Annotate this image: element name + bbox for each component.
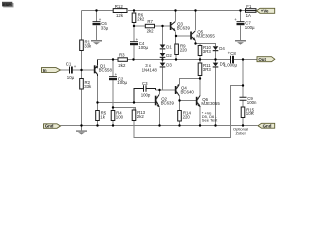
wire Q2 leads column	[159, 90, 161, 126]
resistor R10	[198, 45, 211, 56]
wire R13 top line	[113, 108, 136, 111]
capacitor C2	[109, 72, 128, 85]
svg-text:D5: D5	[220, 62, 226, 67]
svg-text:C8: C8	[230, 51, 236, 56]
ground C6	[91, 40, 102, 45]
wire D4 D5 column	[215, 51, 217, 126]
capacitor C6	[93, 17, 109, 31]
svg-text:10R: 10R	[246, 111, 254, 116]
svg-text:1A: 1A	[246, 13, 251, 18]
svg-text:100n: 100n	[247, 100, 257, 105]
svg-text:Gnd: Gnd	[45, 124, 54, 129]
wire Q5 emitter D4 line	[196, 41, 216, 47]
svg-text:1,000µ: 1,000µ	[224, 63, 238, 68]
svg-text:3R3: 3R3	[203, 49, 212, 54]
svg-text:MJE3055: MJE3055	[196, 34, 215, 39]
svg-text:R3: R3	[119, 53, 125, 58]
transistor Q1 BC558	[94, 60, 113, 77]
wire C6 column	[96, 11, 98, 41]
svg-text:2k2: 2k2	[118, 63, 126, 68]
wire output rail	[98, 59, 258, 61]
wire left divider column	[81, 11, 83, 126]
resistor R1	[80, 40, 92, 51]
svg-text:D4: D4	[219, 46, 225, 51]
capacitor C1	[66, 61, 77, 79]
wire input line	[61, 69, 95, 71]
svg-text:BC558: BC558	[99, 68, 113, 73]
svg-text:BC639: BC639	[177, 26, 191, 31]
svg-text:33k: 33k	[84, 43, 92, 48]
svg-text:12k: 12k	[116, 13, 124, 18]
wire Q4 collector elbow	[180, 79, 201, 85]
svg-text:100p: 100p	[141, 92, 151, 97]
resistor R13	[132, 110, 145, 121]
wire R7 line	[134, 25, 170, 27]
fuse F1	[246, 4, 257, 18]
svg-text:100: 100	[116, 114, 124, 119]
note optional zobel	[233, 127, 248, 136]
resistor R14	[178, 111, 192, 122]
wire Q1 emitter	[97, 60, 99, 65]
svg-text:F1: F1	[246, 4, 252, 9]
wire feedback loop	[134, 86, 243, 138]
svg-text:2k2: 2k2	[147, 29, 155, 34]
diode D5	[213, 62, 226, 68]
svg-text:See Text: See Text	[202, 117, 218, 122]
svg-text:33k: 33k	[84, 84, 92, 89]
svg-text:Zobel: Zobel	[235, 130, 245, 135]
wire Q4 emitter R14 column	[179, 96, 181, 126]
svg-text:2k2: 2k2	[137, 114, 145, 119]
connector tag In	[42, 68, 61, 73]
wire C3 left lead	[134, 89, 143, 103]
capacitor C8	[224, 51, 238, 68]
transistor Q6 MJE2955	[196, 95, 221, 107]
svg-text:+Ve: +Ve	[261, 9, 269, 14]
wire Q3 collector	[175, 11, 177, 22]
svg-text:Gnd: Gnd	[263, 124, 272, 129]
resistor R7	[145, 19, 154, 34]
svg-text:R7: R7	[147, 19, 153, 24]
wire Q5 collector	[195, 11, 197, 31]
wire ground rail	[61, 125, 258, 127]
wire Q5 base line	[176, 35, 191, 37]
wire R6 C4 column	[133, 11, 135, 60]
svg-text:100µ: 100µ	[138, 45, 148, 50]
diode D1	[160, 45, 173, 50]
svg-text:100µ: 100µ	[117, 80, 127, 85]
connector tag Gnd bottom left	[44, 124, 61, 129]
capacitor C3	[141, 81, 151, 98]
svg-text:100µ: 100µ	[245, 25, 255, 30]
svg-text:R12: R12	[115, 4, 124, 9]
note optional zener	[202, 110, 218, 122]
capacitor C7	[234, 17, 255, 30]
wire bias diode column	[162, 26, 164, 90]
wire output column	[242, 60, 244, 126]
svg-text:D3: D3	[166, 62, 172, 67]
resistor R9	[175, 44, 188, 55]
connector tag +Ve	[257, 8, 275, 13]
svg-text:BC640: BC640	[181, 90, 195, 95]
svg-text:C3: C3	[142, 81, 148, 86]
svg-text:10µ: 10µ	[67, 75, 75, 80]
svg-text:3R3: 3R3	[203, 67, 212, 72]
connector tag Out	[257, 57, 275, 62]
wire C7 column	[240, 11, 242, 41]
transistor Q2 BC639	[155, 94, 175, 107]
ground bottom rail	[76, 126, 87, 135]
ESP logo badge	[2, 2, 14, 8]
svg-text:1k: 1k	[100, 114, 105, 119]
diode D2	[160, 53, 173, 58]
wire Q3 emitter R9 column	[175, 32, 178, 60]
svg-text:220: 220	[183, 115, 191, 120]
transistor Q3 BC639	[170, 22, 191, 32]
svg-text:BC639: BC639	[161, 101, 175, 106]
wire Q2 collector line	[156, 89, 176, 91]
resistor R11	[198, 63, 211, 76]
ground C7	[235, 40, 246, 45]
resistor R2	[80, 79, 92, 90]
diode D4	[213, 46, 226, 51]
svg-text:MJE3055: MJE3055	[201, 101, 220, 106]
resistor R12	[113, 4, 127, 18]
svg-text:D2: D2	[166, 53, 172, 58]
svg-text:D1: D1	[166, 45, 172, 50]
svg-text:ESP: ESP	[3, 2, 11, 7]
wire top rail	[82, 10, 258, 12]
resistor R6	[132, 13, 145, 23]
diode D3	[160, 62, 173, 67]
svg-text:2k2: 2k2	[137, 17, 145, 22]
resistor R4	[111, 111, 123, 121]
capacitor C9 zobel	[240, 96, 258, 105]
transistor Q5 MJE3055	[190, 30, 215, 41]
svg-text:C1: C1	[66, 61, 72, 66]
svg-text:In: In	[43, 68, 47, 73]
svg-text:33µ: 33µ	[101, 26, 109, 31]
resistor R3	[118, 53, 127, 68]
svg-text:+: +	[74, 64, 77, 69]
resistor R15 zobel	[241, 107, 254, 118]
capacitor C4	[130, 37, 149, 50]
resistor R5	[96, 111, 107, 121]
transistor Q4 BC548	[175, 84, 195, 95]
junction dots	[80, 9, 244, 126]
wire C2 R4 column	[112, 60, 114, 126]
wire R11 Q6 collector column	[199, 60, 201, 96]
wire Q6 base line	[180, 100, 197, 102]
wire VAS base line	[98, 102, 156, 104]
svg-text:Out: Out	[258, 57, 266, 62]
wire Q1 collector column	[97, 76, 99, 126]
wire R10 column	[199, 44, 201, 60]
wire C3 right lead	[147, 89, 156, 91]
wire Q6 emitter	[199, 107, 201, 126]
svg-text:220: 220	[180, 48, 188, 53]
svg-text:1N4148: 1N4148	[142, 68, 158, 73]
connector tag Gnd bottom right	[258, 123, 275, 128]
